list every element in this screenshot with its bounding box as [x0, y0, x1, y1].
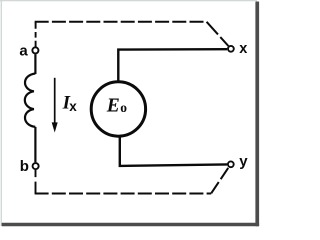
terminal b (open circle) [33, 163, 39, 169]
inductor Lx coil (3 left bulging arcs) [25, 74, 35, 127]
wire: dashed top-right diagonal to terminal x [207, 22, 229, 46]
wire: solid top wire from E_o top to terminal x [118, 49, 227, 81]
wire: solid bottom wire from E_o bottom to terminal y [120, 137, 227, 166]
svg-text:x: x [239, 41, 247, 57]
svg-text:E: E [106, 95, 120, 116]
wire: solid from terminal a down to coil top [34, 54, 36, 74]
svg-text:b: b [20, 158, 29, 175]
svg-text:y: y [239, 153, 248, 170]
terminal a (open circle) [32, 47, 38, 53]
arrow for current Ix [54, 78, 56, 124]
svg-text:o: o [120, 100, 127, 115]
wire: dashed top horizontal [35, 21, 207, 23]
source E_o circle [91, 82, 145, 136]
wire: dashed vertical below terminal b [35, 170, 37, 194]
terminal x (open circle) [228, 46, 234, 52]
scan frame left light edge [1, 0, 2, 226]
arrowhead of Ix arrow [52, 122, 58, 132]
wire: solid from coil bottom to terminal b [34, 127, 36, 162]
svg-text:x: x [69, 99, 77, 114]
svg-text:a: a [19, 42, 28, 59]
scan frame top light edge [0, 0, 257, 1]
wire: dashed bottom horizontal [35, 193, 212, 195]
scan frame bottom dark shadow bar [2, 223, 260, 227]
terminal y (open circle) [228, 161, 234, 167]
wire: dashed bottom-right diagonal to terminal y [211, 167, 228, 193]
scan frame right dark shadow bar [255, 2, 259, 227]
wire: dashed left vertical from top corner to terminal a [35, 22, 37, 47]
